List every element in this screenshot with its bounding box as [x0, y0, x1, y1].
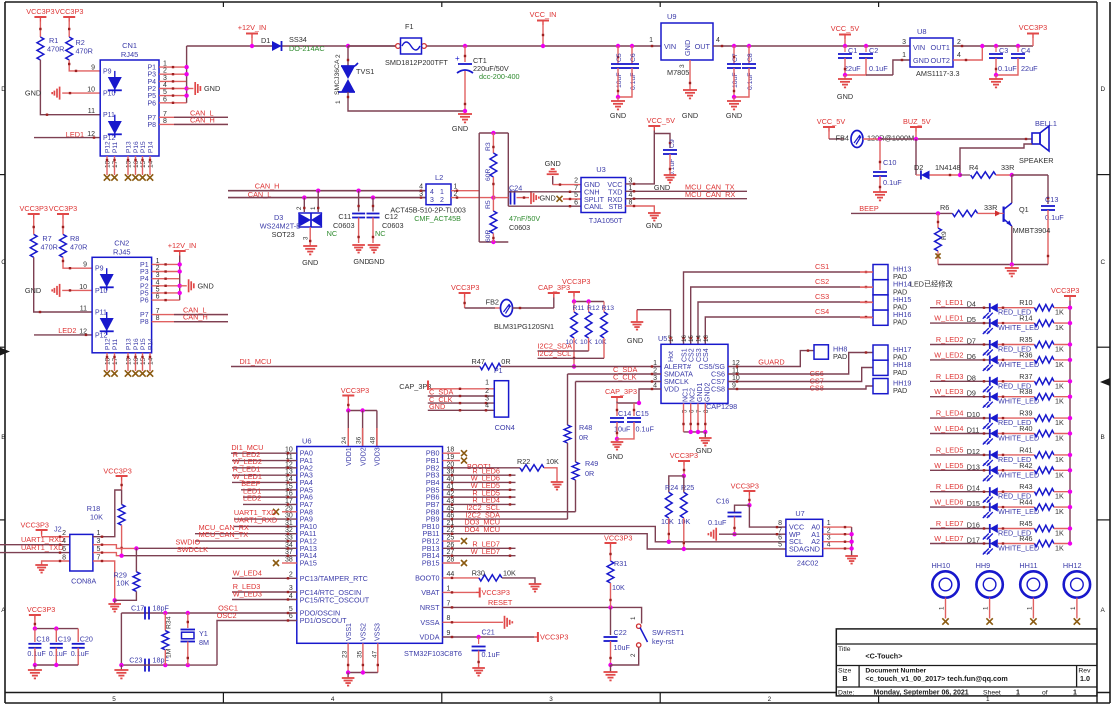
- svg-text:35: 35: [356, 650, 363, 658]
- svg-text:16: 16: [133, 160, 140, 168]
- svg-text:1.0: 1.0: [1080, 674, 1090, 683]
- resistor R12 10K: [588, 302, 590, 313]
- svg-text:RJ45: RJ45: [113, 248, 131, 257]
- wire to R24 top: [669, 476, 684, 492]
- svg-text:HH10: HH10: [932, 561, 951, 570]
- svg-text:D4: D4: [967, 300, 976, 309]
- svg-text:R11: R11: [573, 305, 585, 312]
- wire CS3 to pad HH15: [698, 302, 860, 344]
- svg-text:VCC3P3: VCC3P3: [55, 7, 83, 16]
- svg-text:8: 8: [778, 520, 782, 527]
- svg-text:P4: P4: [147, 79, 156, 86]
- svg-text:24: 24: [341, 436, 348, 444]
- svg-text:D17: D17: [967, 536, 980, 545]
- svg-text:C_CLK: C_CLK: [613, 373, 637, 382]
- svg-text:PC15/RTC_OSCOUT: PC15/RTC_OSCOUT: [300, 595, 370, 604]
- wire I2C2_SDA pullup: [538, 350, 589, 352]
- resistor R41 1K: [998, 454, 1035, 456]
- resistor R10 1K: [998, 307, 1035, 309]
- wire U7 right pins to ground: [823, 526, 852, 528]
- svg-text:1: 1: [983, 606, 990, 610]
- ground GND below U7 right: [845, 555, 858, 557]
- svg-text:D2: D2: [914, 163, 923, 172]
- svg-text:I2C2_SCL: I2C2_SCL: [538, 349, 572, 358]
- wire OSC1 row: [121, 612, 187, 614]
- svg-text:0R: 0R: [579, 433, 588, 442]
- wire CAN_H from CN1 P8: [159, 123, 228, 125]
- svg-text:GND: GND: [25, 286, 41, 295]
- svg-text:P7: P7: [147, 115, 156, 122]
- power flag VCC3P3 at U7: [743, 490, 755, 492]
- svg-text:GND: GND: [607, 452, 623, 461]
- wire J2 pin8 to ground: [42, 561, 70, 565]
- capacitor C7 10uF: [732, 44, 736, 48]
- svg-text:4: 4: [331, 696, 335, 703]
- wire L2 pin2 to C24 row: [451, 197, 493, 199]
- svg-text:470R: 470R: [47, 45, 64, 54]
- svg-text:LED2: LED2: [243, 494, 261, 503]
- wire CON4 pin4: [428, 409, 495, 411]
- power flag VCC_IN: [537, 20, 549, 22]
- svg-text:P12: P12: [105, 338, 112, 350]
- svg-text:GND: GND: [545, 159, 561, 168]
- svg-text:TVS1: TVS1: [356, 67, 374, 76]
- svg-text:W_LED4: W_LED4: [934, 424, 963, 433]
- svg-text:R25: R25: [681, 483, 694, 492]
- svg-text:D5: D5: [967, 315, 976, 324]
- capacitor C9 0.1uF: [654, 134, 670, 149]
- svg-text:P10: P10: [95, 288, 108, 295]
- regulator U8 AMS1117-3.3: [910, 38, 953, 67]
- power flag BUZ_5V: [910, 126, 922, 128]
- svg-text:CS8: CS8: [810, 384, 824, 393]
- svg-text:UART1_TXD: UART1_TXD: [21, 543, 63, 552]
- resistor R31 10K: [605, 542, 617, 544]
- wire TVS1 to bottom rail: [348, 92, 465, 111]
- CN2 internal LED bottom: [106, 312, 108, 335]
- svg-text:4: 4: [289, 593, 293, 600]
- frame column ticks: [222, 693, 224, 704]
- svg-text:DI1_MCU: DI1_MCU: [240, 357, 272, 366]
- svg-text:DO4_MCU: DO4_MCU: [464, 525, 500, 534]
- capacitor C17 18pF: [144, 607, 146, 620]
- no-connect X at PA8: [282, 511, 297, 513]
- svg-text:C7: C7: [732, 53, 739, 62]
- svg-text:1: 1: [827, 520, 831, 527]
- resistor R14 1K: [998, 322, 1035, 324]
- svg-text:C11: C11: [338, 212, 351, 221]
- ground sideways at U7 WP: [707, 533, 709, 535]
- svg-text:C14: C14: [618, 409, 631, 418]
- ground GND below R30: [529, 583, 542, 585]
- svg-text:NC1: NC1: [683, 388, 690, 402]
- svg-text:13: 13: [126, 357, 133, 365]
- svg-text:3: 3: [303, 236, 310, 240]
- wire U3 RXD MCU_CAN_RX: [626, 198, 748, 200]
- svg-text:0.1uF: 0.1uF: [998, 64, 1017, 73]
- power flag VCC3P3 (R2): [63, 16, 75, 18]
- wire U8 OUT1 to 3.3V rail: [953, 45, 1033, 47]
- regulator U9 M7805: [661, 23, 713, 60]
- svg-text:VCC3P3: VCC3P3: [27, 605, 55, 614]
- svg-text:CON4: CON4: [495, 423, 515, 432]
- svg-text:R_LED2: R_LED2: [936, 335, 964, 344]
- svg-text:P6: P6: [140, 298, 149, 305]
- svg-text:C4: C4: [1021, 46, 1030, 55]
- pads HH17-HH18: [873, 345, 888, 360]
- svg-text:D: D: [1, 86, 6, 93]
- svg-text:VCC_5V: VCC_5V: [647, 116, 676, 125]
- svg-text:P16: P16: [133, 141, 140, 153]
- svg-text:2: 2: [296, 206, 303, 210]
- capacitor CT1 220uF/50V polarized: [464, 46, 466, 62]
- svg-text:1K: 1K: [1055, 381, 1064, 390]
- svg-text:VCC3P3: VCC3P3: [540, 633, 568, 642]
- svg-text:<C-Touch>: <C-Touch>: [865, 652, 902, 661]
- svg-text:6: 6: [62, 546, 66, 553]
- svg-text:P11: P11: [103, 112, 115, 119]
- svg-text:J2: J2: [54, 525, 62, 534]
- svg-text:B: B: [1, 434, 5, 441]
- svg-text:R3: R3: [485, 142, 492, 151]
- wire R31 to C22: [610, 607, 612, 635]
- resistor R44 1K: [998, 506, 1035, 508]
- svg-text:VIN: VIN: [664, 42, 676, 51]
- svg-text:C10: C10: [883, 158, 896, 167]
- power flag VCC3P3 (R1): [34, 16, 46, 18]
- resistor R36 1K: [998, 359, 1035, 361]
- svg-text:3: 3: [827, 535, 831, 542]
- wire BUZ_5V branch to D2: [915, 139, 917, 175]
- wire CAN_H bus: [228, 190, 426, 192]
- svg-text:0.1uF: 0.1uF: [708, 518, 727, 527]
- power flag VCC3P3 at VDDA: [537, 632, 539, 642]
- svg-text:CS4: CS4: [815, 307, 829, 316]
- no-connect X at PB12: [443, 540, 461, 542]
- power flag VCC3P3 at J2: [36, 529, 48, 531]
- svg-text:0.1uF: 0.1uF: [636, 425, 655, 434]
- svg-text:GND: GND: [683, 40, 692, 56]
- wire CAN_H from CN2 P8: [152, 321, 228, 323]
- ground GND below Q1 emitter: [1011, 265, 1013, 269]
- svg-text:B: B: [842, 674, 847, 683]
- pad HH19: [873, 379, 888, 394]
- svg-text:PAD: PAD: [893, 386, 907, 395]
- svg-text:1: 1: [1026, 606, 1033, 610]
- ground GND below C21: [472, 667, 485, 669]
- svg-text:60R: 60R: [485, 229, 492, 242]
- svg-text:6: 6: [778, 535, 782, 542]
- ground GND below J2 pin7: [114, 600, 116, 604]
- svg-text:CS8: CS8: [711, 385, 725, 394]
- svg-text:GND: GND: [804, 544, 820, 553]
- wire VDD1 pin 24: [347, 411, 349, 447]
- svg-text:SMCJ36CA: SMCJ36CA: [334, 59, 341, 95]
- ground GND below C3 C4: [995, 75, 997, 79]
- svg-text:7: 7: [778, 527, 782, 534]
- svg-text:R40: R40: [1019, 424, 1032, 433]
- transceiver U3 TJA1050T: [581, 178, 626, 213]
- wire U8 OUT2 up to rail: [953, 46, 982, 60]
- no-connect X at U3 SPLIT: [557, 196, 563, 202]
- svg-text:3: 3: [549, 696, 553, 703]
- svg-text:D9: D9: [967, 389, 976, 398]
- svg-text:D6: D6: [967, 352, 976, 361]
- svg-text:GND2: GND2: [704, 382, 711, 402]
- wire FB4 input: [829, 138, 844, 140]
- ground GND below C22: [610, 665, 612, 672]
- svg-text:CAP_3P3: CAP_3P3: [605, 387, 637, 396]
- svg-text:10: 10: [79, 284, 87, 291]
- svg-text:A: A: [1, 607, 6, 614]
- resistor R18 10K: [121, 490, 123, 505]
- crystal Y1 8M: [187, 613, 189, 628]
- svg-text:2: 2: [440, 197, 444, 204]
- svg-text:GND: GND: [368, 257, 384, 266]
- svg-text:1K: 1K: [1055, 529, 1064, 538]
- capacitor C12 C0603: [371, 195, 375, 199]
- capacitor C23 18pF: [144, 659, 146, 672]
- svg-text:VCC3P3: VCC3P3: [670, 451, 698, 460]
- svg-text:2: 2: [289, 572, 293, 579]
- svg-text:W_LED1: W_LED1: [934, 314, 963, 323]
- capacitor C24 47nF/50V: [493, 197, 508, 199]
- svg-text:P13: P13: [126, 338, 133, 350]
- svg-text:P11: P11: [112, 142, 119, 153]
- svg-text:36: 36: [355, 436, 362, 444]
- svg-text:R39: R39: [1019, 409, 1032, 418]
- svg-text:0.1uF: 0.1uF: [482, 650, 501, 659]
- svg-text:BELL1: BELL1: [1035, 119, 1057, 128]
- svg-text:470R: 470R: [41, 243, 58, 252]
- svg-text:10K: 10K: [116, 579, 129, 588]
- svg-text:BLM31PG120SN1: BLM31PG120SN1: [494, 322, 554, 331]
- svg-text:R30: R30: [472, 569, 485, 578]
- resistor R5 60R: [492, 198, 494, 211]
- svg-text:SMD1812P200TFT: SMD1812P200TFT: [385, 58, 448, 67]
- svg-text:1K: 1K: [1055, 544, 1064, 553]
- power flag VCC3P3 at R11-R13: [568, 291, 580, 293]
- zone arrow left: [0, 348, 10, 356]
- wire buzzer ground rail: [938, 264, 1048, 266]
- svg-text:CS3: CS3: [696, 348, 703, 362]
- svg-text:5: 5: [289, 606, 293, 613]
- svg-text:1: 1: [649, 37, 653, 44]
- svg-text:R_LED7: R_LED7: [936, 519, 964, 528]
- power flag +12V_IN (top): [246, 33, 258, 35]
- ground sideways at VSSA: [443, 621, 504, 623]
- wire R4 node to C13: [1012, 174, 1048, 176]
- svg-text:P11: P11: [95, 310, 107, 317]
- svg-text:of: of: [1042, 690, 1048, 697]
- wire U5 VDD to CAP_3P3: [639, 389, 661, 403]
- sheet border frame: [5, 1, 1097, 3]
- power flag VCC3P3 (R7): [28, 213, 40, 215]
- svg-text:P10: P10: [103, 91, 116, 98]
- svg-text:F1: F1: [405, 22, 414, 31]
- svg-text:GND: GND: [204, 84, 220, 93]
- svg-text:3: 3: [289, 585, 293, 592]
- svg-text:CS3: CS3: [815, 292, 829, 301]
- svg-text:0.1uF: 0.1uF: [869, 64, 888, 73]
- TVS diode D3 WS24M2T-B: [302, 195, 306, 199]
- svg-text:0.1uF: 0.1uF: [27, 649, 46, 658]
- ground GND below C9: [664, 174, 677, 176]
- svg-text:C: C: [1101, 259, 1106, 266]
- svg-text:dcc-200-400: dcc-200-400: [479, 72, 520, 81]
- svg-text:10K: 10K: [595, 339, 608, 346]
- pads HH13-HH16: [873, 265, 888, 280]
- svg-text:NC: NC: [327, 229, 338, 238]
- wire VDDA: [443, 636, 535, 638]
- svg-text:+: +: [455, 54, 460, 63]
- svg-text:VCC3P3: VCC3P3: [103, 467, 131, 476]
- resistor R29 10K: [135, 548, 137, 571]
- svg-text:2: 2: [485, 388, 489, 395]
- svg-text:U5: U5: [658, 334, 667, 343]
- svg-text:LED2: LED2: [58, 326, 76, 335]
- svg-text:Sheet: Sheet: [983, 690, 1001, 697]
- wire +12V main rail: [187, 45, 661, 47]
- svg-text:10K: 10K: [612, 583, 625, 592]
- svg-text:10K: 10K: [580, 339, 593, 346]
- svg-text:P5: P5: [140, 290, 149, 297]
- no-connect X at R9 bottom: [937, 251, 939, 265]
- svg-text:W_LED7: W_LED7: [934, 534, 963, 543]
- svg-text:P8: P8: [147, 122, 156, 129]
- svg-text:47: 47: [371, 650, 378, 658]
- R3 R5 divider rails: [478, 133, 480, 242]
- capacitor C10 0.1uF: [879, 139, 881, 170]
- wire CS4 to pad HH16: [705, 317, 860, 344]
- svg-text:VDD2: VDD2: [360, 447, 367, 466]
- svg-text:10K: 10K: [661, 517, 674, 526]
- svg-text:15: 15: [140, 357, 147, 365]
- svg-text:U3: U3: [596, 165, 606, 174]
- svg-text:CS2: CS2: [689, 348, 696, 362]
- svg-text:VIN: VIN: [913, 43, 925, 52]
- capacitor C21 0.1uF: [478, 637, 480, 644]
- svg-text:C22: C22: [614, 628, 627, 637]
- node CT1: [463, 44, 467, 48]
- ground GND below C11: [352, 244, 365, 246]
- wire J2 pin5 to SWDCLK: [93, 553, 122, 556]
- svg-text:1: 1: [440, 189, 444, 196]
- svg-text:U9: U9: [667, 12, 677, 21]
- power flag VCC3P3 at U8 output: [1027, 33, 1039, 35]
- svg-text:2: 2: [630, 653, 637, 657]
- svg-text:D10: D10: [967, 410, 980, 419]
- svg-text:1K: 1K: [1055, 434, 1064, 443]
- svg-text:1M: 1M: [166, 648, 173, 658]
- no-connect X at PB15: [443, 562, 461, 564]
- wire OSC1 to OSC2 left leg: [120, 613, 122, 665]
- rail R11 R12 R13 tops: [574, 301, 604, 303]
- wire WP row: [719, 533, 786, 535]
- svg-text:SDA: SDA: [789, 544, 804, 553]
- svg-text:7: 7: [574, 185, 578, 192]
- svg-text:P1: P1: [140, 262, 149, 269]
- common-mode filter L2 ACT45B: [426, 184, 451, 205]
- svg-text:13: 13: [703, 335, 710, 342]
- power flag VCC3P3 at LED rail: [1064, 295, 1076, 297]
- wire C2 to U8 GND pin: [893, 60, 910, 75]
- svg-text:GND: GND: [540, 194, 556, 203]
- svg-text:GND: GND: [302, 258, 318, 267]
- svg-text:CON8A: CON8A: [71, 577, 96, 586]
- svg-text:CS1: CS1: [681, 348, 688, 362]
- svg-text:L2: L2: [435, 173, 443, 182]
- svg-text:C5: C5: [616, 53, 623, 62]
- svg-text:CANL: CANL: [584, 202, 603, 211]
- svg-text:4: 4: [716, 37, 720, 44]
- svg-text:VCC3P3: VCC3P3: [341, 386, 369, 395]
- svg-text:HH9: HH9: [976, 561, 991, 570]
- svg-text:8: 8: [447, 615, 451, 622]
- ground GND below C18: [34, 665, 36, 670]
- wire CT1 to GND: [464, 71, 466, 111]
- svg-text:WHITE_LED: WHITE_LED: [998, 434, 1039, 443]
- svg-text:4: 4: [827, 542, 831, 549]
- svg-text:WHITE_LED: WHITE_LED: [998, 544, 1039, 553]
- svg-text:14: 14: [148, 357, 155, 365]
- capacitor C13 0.1uF: [1047, 175, 1049, 204]
- svg-text:C3: C3: [999, 46, 1008, 55]
- svg-text:VCC3P3: VCC3P3: [482, 588, 510, 597]
- resistor R47 0R: [480, 363, 501, 369]
- svg-text:P7: P7: [140, 312, 149, 319]
- svg-text:U7: U7: [795, 509, 804, 518]
- svg-text:W_LED4: W_LED4: [233, 569, 262, 578]
- wire I2C2_SCL pullup: [538, 357, 605, 359]
- svg-text:PC13/TAMPER_RTC: PC13/TAMPER_RTC: [300, 574, 368, 583]
- svg-text:Y1: Y1: [199, 629, 208, 638]
- capacitor C5 10uF: [616, 44, 620, 48]
- ground GND below D3: [303, 245, 317, 247]
- svg-text:12: 12: [87, 131, 95, 138]
- svg-text:R22: R22: [517, 457, 530, 466]
- wire TVS1 branch down: [347, 46, 349, 66]
- svg-text:OSC2: OSC2: [217, 611, 237, 620]
- svg-text:R48: R48: [579, 423, 592, 432]
- switch SW-RST1 key-rst: [637, 624, 641, 628]
- ground GND below C14 C15: [616, 439, 618, 442]
- resistor R13 10K: [603, 302, 605, 313]
- svg-text:D: D: [1101, 86, 1106, 93]
- svg-text:4: 4: [62, 538, 66, 545]
- ground GND below C5 C6: [617, 97, 619, 101]
- svg-text:GND: GND: [646, 221, 662, 230]
- svg-text:GND: GND: [682, 111, 698, 120]
- svg-text:C: C: [1, 259, 6, 266]
- wire R7 to CN2 pin11: [34, 257, 92, 312]
- svg-text:P12: P12: [103, 135, 116, 142]
- resistor R11 10K: [573, 302, 575, 313]
- svg-text:1: 1: [1073, 690, 1077, 697]
- capacitor C4 22uF: [1016, 44, 1020, 48]
- svg-text:BOOT0: BOOT0: [415, 573, 439, 582]
- resistor R2 470R: [66, 37, 73, 60]
- svg-text:P15: P15: [140, 338, 147, 350]
- svg-text:6: 6: [689, 409, 696, 413]
- svg-text:1: 1: [447, 585, 451, 592]
- wire U9 OUT to 5V rail: [713, 45, 910, 47]
- svg-text:SWDCLK: SWDCLK: [177, 545, 208, 554]
- svg-text:R42: R42: [1019, 461, 1032, 470]
- svg-text:1: 1: [335, 100, 342, 104]
- svg-text:CS2: CS2: [815, 277, 829, 286]
- svg-text:12: 12: [79, 328, 87, 335]
